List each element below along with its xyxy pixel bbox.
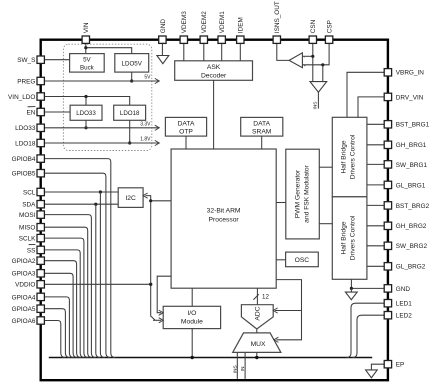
svg-text:VIN_LDO: VIN_LDO (8, 94, 35, 101)
svg-text:PWM Generator: PWM Generator (294, 169, 301, 218)
arrow into I/O lower (159, 318, 164, 323)
wire ADC to MUX (256, 329, 258, 333)
wire ARM to I/O upper (157, 276, 171, 313)
svg-text:BST_BRG1: BST_BRG1 (396, 122, 430, 129)
svg-text:Drivers Control: Drivers Control (349, 215, 356, 260)
wire VIN down to 5V Buck (85, 43, 87, 53)
I/O Module block (163, 306, 220, 328)
wire ASK output to ARM (213, 80, 215, 149)
wire LDO5V output down (131, 72, 133, 81)
wire LDO18 output down (129, 120, 131, 143)
wire I/O Module to bus (191, 329, 193, 358)
pin LDO33 (37, 124, 44, 131)
pin EP (384, 361, 391, 368)
wire GPIOA2 to bus (45, 261, 82, 358)
ground symbol EP (366, 370, 378, 378)
junction SCL (99, 190, 102, 193)
pin SS (37, 246, 44, 253)
svg-text:LDO18: LDO18 (15, 140, 36, 147)
wire ARM to PWM (276, 202, 286, 204)
ADC converter (pentagon) (241, 305, 273, 329)
pin VIN_LDO (37, 93, 44, 100)
svg-text:32-Bit ARM: 32-Bit ARM (207, 207, 241, 214)
wire BST_BRG1 (367, 123, 384, 125)
wire GPIOB5 to bus (45, 173, 111, 357)
svg-text:DATA: DATA (178, 120, 195, 127)
DATA OTP block (165, 117, 206, 136)
regulator LDO18 (114, 105, 146, 120)
pin VBRG_IN (384, 69, 391, 76)
pin SCLK (37, 234, 44, 241)
arrow 3.3V (155, 125, 160, 130)
wire V1 to ARM (151, 200, 171, 202)
pin IDEM (237, 36, 244, 43)
wire GL_BRG2 (367, 265, 384, 267)
svg-text:GPIOB4: GPIOB4 (12, 156, 36, 163)
svg-text:I2C: I2C (125, 195, 136, 202)
wire SDA branch to bus (96, 204, 101, 357)
wire GND stem right (350, 288, 352, 292)
wire MISO to bus (45, 227, 93, 357)
pin GPIOA4 (37, 293, 44, 300)
svg-text:ASK: ASK (207, 64, 221, 71)
wire GH_BRG1 (367, 144, 384, 146)
wire ISNS_OUT from amp A1 (277, 43, 289, 60)
wire branch to ADC (275, 310, 302, 312)
svg-text:BST_BRG2: BST_BRG2 (396, 203, 430, 210)
regulator 5V Buck (70, 54, 105, 73)
arrow 5V (155, 78, 160, 83)
svg-text:LED2: LED2 (396, 313, 412, 320)
svg-text:DATA: DATA (253, 120, 270, 127)
wire ARM to ADC/MUX selects (276, 280, 301, 340)
wire CSN down (312, 43, 314, 81)
pin SCL (37, 188, 44, 195)
svg-text:5V: 5V (144, 75, 151, 81)
wire LED2 to bus (353, 315, 385, 357)
pin DRV_VIN (384, 93, 391, 100)
svg-text:INS: INS (313, 102, 319, 110)
wire A2 output INS (317, 92, 319, 108)
pin VDEM3 (180, 36, 187, 43)
wire VDEM3 to ASK (183, 43, 185, 60)
pin CSP (325, 36, 332, 43)
wire VDEM2 to ASK (203, 43, 205, 60)
regulator LDO33 (70, 105, 102, 120)
arrow into ADC (273, 308, 278, 313)
svg-text:GPIOA4: GPIOA4 (12, 294, 36, 301)
PWM Generator and FSK Modulator block (286, 149, 320, 239)
wire VIN_LDO to LDO18 (45, 97, 130, 106)
wire SCLK to bus (45, 238, 89, 357)
pin EN (37, 108, 44, 115)
wire CSP down (323, 43, 329, 81)
wire GL_BRG1 (367, 184, 384, 186)
wire INS input to MUX (236, 352, 238, 379)
svg-text:OSC: OSC (295, 257, 310, 264)
op-amp A1 (current sense amp, points left) (289, 53, 302, 68)
svg-text:1.8V: 1.8V (140, 137, 151, 143)
wire A1 minus input (302, 64, 322, 66)
arrow into MUX (274, 337, 279, 342)
svg-text:MOSI: MOSI (19, 212, 36, 219)
svg-text:MISO: MISO (19, 225, 35, 232)
svg-text:Decoder: Decoder (201, 72, 227, 79)
pin GPIOA6 (37, 317, 44, 324)
svg-text:GL_BRG1: GL_BRG1 (396, 182, 426, 189)
pin SDA (37, 201, 44, 208)
wire BST_BRG2 (367, 204, 384, 206)
svg-text:Drivers Control: Drivers Control (349, 134, 356, 179)
svg-text:LED1: LED1 (396, 301, 412, 308)
pin GH_BRG1 (384, 141, 391, 148)
wire SS to bus (45, 250, 85, 358)
op-amp A2 INS (points down) (310, 82, 327, 93)
svg-text:DRV_VIN: DRV_VIN (396, 94, 424, 101)
svg-text:PREG: PREG (17, 78, 35, 85)
wire LED1 to bus (347, 303, 385, 357)
chip boundary U1 (41, 40, 388, 381)
Half Bridge Drivers Control block 1 (332, 117, 367, 197)
wire DATA SRAM to ARM (261, 136, 263, 149)
svg-text:GPIOA6: GPIOA6 (12, 318, 36, 325)
svg-text:IDEM: IDEM (238, 17, 245, 33)
wire VIN_LDO branch to LDO33 (85, 97, 87, 106)
svg-text:VBRG_IN: VBRG_IN (396, 70, 424, 77)
svg-text:SCLK: SCLK (19, 236, 36, 243)
arrow 1.8V (155, 140, 160, 145)
wire LDO33 3.3V rail (45, 127, 159, 129)
wire GPIOA4 to bus (45, 297, 74, 358)
wire VBRG_IN to Half Bridge 1 (347, 72, 384, 117)
bus bottom rail (49, 357, 372, 359)
svg-text:and FSK Modulator: and FSK Modulator (303, 164, 310, 222)
wire DATA OTP to ARM (185, 136, 187, 149)
svg-text:5V: 5V (83, 56, 91, 63)
svg-text:GPIOA3: GPIOA3 (12, 271, 36, 278)
wire ARM to I/O Module top (191, 288, 193, 306)
wire SDA to I2C (45, 203, 119, 205)
wire GPIOB4 to bus (45, 159, 116, 358)
wire MOSI to bus (45, 215, 96, 358)
pin GPIOB5 (37, 170, 44, 177)
svg-text:SRAM: SRAM (252, 129, 272, 136)
svg-text:SCL: SCL (23, 189, 36, 196)
wire GPIOA3 to bus (45, 273, 78, 357)
junction 3.3V net (84, 126, 87, 129)
wire VIN branch to LDO5V (86, 48, 132, 54)
svg-text:LDO5V: LDO5V (122, 61, 143, 68)
svg-text:INS: INS (232, 365, 238, 373)
Half Bridge Drivers Control block 2 (332, 197, 367, 279)
svg-text:VDEM2: VDEM2 (201, 11, 208, 33)
svg-text:Module: Module (181, 319, 203, 326)
wire IN input to MUX (244, 352, 246, 379)
wire A1 plus input (302, 55, 312, 57)
svg-text:SDA: SDA (22, 202, 36, 209)
wire PWM to Half Bridge 1 (319, 166, 332, 168)
pin GPIOA5 (37, 305, 44, 312)
junction VIN (84, 46, 87, 49)
wire SCL to I2C (45, 191, 119, 193)
pin GPIOA2 (37, 257, 44, 264)
svg-text:SS: SS (27, 247, 36, 254)
wire LDO33 output down (85, 120, 87, 128)
svg-text:Half Bridge: Half Bridge (340, 140, 347, 173)
wire Half Bridge 2 to GND pin (351, 279, 384, 288)
svg-text:GL_BRG2: GL_BRG2 (396, 264, 426, 271)
wire EP to ground (371, 364, 384, 370)
svg-text:LDO33: LDO33 (76, 110, 96, 117)
svg-text:GPIOA2: GPIOA2 (12, 258, 36, 265)
bus width slash (253, 294, 258, 300)
svg-text:CSP: CSP (327, 20, 334, 33)
svg-text:ISNS_OUT: ISNS_OUT (274, 1, 281, 33)
ground symbol top (157, 56, 169, 64)
svg-text:SW_S: SW_S (17, 57, 35, 64)
pin LED1 (384, 300, 391, 307)
pin BST_BRG1 (384, 121, 391, 128)
regulator LDO5V (115, 54, 149, 73)
svg-text:GH_BRG2: GH_BRG2 (396, 223, 427, 230)
pin MISO (37, 224, 44, 231)
pin VDDIO (37, 281, 44, 288)
power block dashed enclosure (63, 44, 151, 150)
wire ARM to OSC (276, 259, 285, 261)
svg-text:VDEM3: VDEM3 (181, 11, 188, 33)
pin VIN (82, 36, 89, 43)
svg-text:GPIOA5: GPIOA5 (12, 306, 36, 313)
svg-text:EN: EN (27, 109, 36, 116)
svg-text:CSN: CSN (310, 19, 317, 33)
junction SDA (94, 203, 97, 206)
wire PREG 5V rail (45, 80, 159, 82)
svg-text:12: 12 (262, 294, 269, 301)
pin CSN (309, 36, 316, 43)
pin BST_BRG2 (384, 202, 391, 209)
wire V1 into I/O Module (153, 319, 161, 321)
junction 1.8V net (128, 141, 131, 144)
pin GL_BRG2 (384, 263, 391, 270)
wire LDO18 1.8V rail (45, 142, 159, 144)
svg-text:GND: GND (396, 286, 411, 293)
svg-text:Processor: Processor (209, 216, 240, 223)
svg-text:Buck: Buck (80, 64, 95, 71)
junction VDDIO (149, 283, 152, 286)
pin GPIOB4 (37, 155, 44, 162)
wire PWM to Half Bridge 2 (319, 223, 332, 225)
wire GH_BRG2 (367, 225, 384, 227)
wire SW_BRG2 (367, 245, 384, 247)
junction I/O-bus (191, 356, 194, 359)
junction VIN_LDO (84, 95, 87, 98)
wire SW_S to 5V Buck (45, 59, 70, 61)
pin SW_BRG1 (384, 161, 391, 168)
pin GND right (384, 285, 391, 292)
OSC block (286, 252, 319, 267)
wire GPIOA5 to bus (45, 309, 70, 358)
junction V1-ARM (149, 199, 152, 202)
pin MOSI (37, 211, 44, 218)
svg-text:VDDIO: VDDIO (15, 282, 35, 289)
svg-text:OTP: OTP (179, 129, 193, 136)
pin VDEM2 (200, 36, 207, 43)
svg-text:EP: EP (396, 362, 405, 369)
svg-text:SW_BRG1: SW_BRG1 (396, 162, 428, 169)
wire VDEM1 to ASK (221, 43, 223, 60)
wire GPIOA6 to bus (45, 321, 66, 358)
pin GND top (159, 36, 166, 43)
pin ISNS_OUT (273, 36, 280, 43)
ground symbol right (345, 292, 357, 300)
wire DRV_VIN to Half Bridge 1 (358, 97, 384, 117)
pin SW_S (37, 56, 44, 63)
ASK Decoder block (175, 61, 253, 81)
pin LDO18 (37, 139, 44, 146)
wire VDDIO to V1 (45, 283, 151, 285)
svg-text:ADC: ADC (254, 306, 261, 320)
svg-text:Half Bridge: Half Bridge (340, 221, 347, 254)
svg-text:VIN: VIN (83, 22, 90, 33)
svg-text:LDO33: LDO33 (15, 125, 36, 132)
svg-text:GND: GND (160, 19, 167, 34)
wire SW_BRG1 (367, 163, 384, 165)
wire IDEM to ASK (239, 43, 241, 60)
arrow into I/O upper (159, 310, 164, 315)
wire SCL branch to bus (100, 192, 105, 358)
junction 5V net (130, 79, 133, 82)
svg-text:GH_BRG1: GH_BRG1 (396, 142, 427, 149)
junction MUX-bus (255, 356, 258, 359)
junction GND right (350, 287, 353, 290)
pin GPIOA3 (37, 270, 44, 277)
pin GH_BRG2 (384, 222, 391, 229)
pin GL_BRG1 (384, 181, 391, 188)
pin LED2 (384, 312, 391, 319)
junction CSN (311, 55, 314, 58)
MUX (trapezoid) (233, 333, 281, 353)
arrow into I2C (143, 193, 148, 198)
wire GND stem (161, 43, 163, 55)
I2C block (118, 188, 143, 208)
wire MUX to bus (256, 352, 258, 357)
DATA SRAM block (241, 117, 283, 136)
svg-text:LDO18: LDO18 (120, 110, 140, 117)
svg-text:I/O: I/O (187, 310, 196, 317)
wire EN to LDO33 (45, 111, 71, 113)
pin PREG (37, 77, 44, 84)
wire ARM to ADC (256, 288, 258, 305)
pin SW_BRG2 (384, 242, 391, 249)
pin VDEM1 (218, 36, 225, 43)
svg-text:3.3V: 3.3V (140, 122, 151, 128)
svg-text:MUX: MUX (251, 341, 266, 348)
junction CSP (321, 63, 324, 66)
svg-text:IN: IN (240, 366, 246, 371)
svg-text:VDEM1: VDEM1 (219, 11, 226, 33)
wire I2C to internal bus V1 (146, 196, 156, 321)
32-Bit ARM Processor block (171, 149, 276, 288)
svg-text:GPIOB5: GPIOB5 (12, 171, 36, 178)
svg-text:SW_BRG2: SW_BRG2 (396, 243, 428, 250)
